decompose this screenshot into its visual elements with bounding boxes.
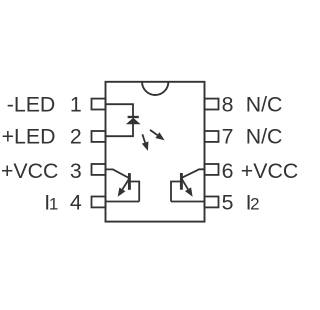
pin 7 <box>205 131 219 142</box>
svg-text:2: 2 <box>70 124 82 148</box>
svg-text:+VCC: +VCC <box>241 159 298 183</box>
light emission arrow (to left detector) <box>142 134 149 151</box>
svg-text:N/C: N/C <box>246 92 283 116</box>
LED D1 cathode bar <box>128 116 139 118</box>
wire pin5 (bottom) <box>171 201 205 203</box>
wire pin4 (bottom) <box>106 201 140 203</box>
phototransistor Q2 base bar <box>180 173 183 190</box>
wire Q2 base to pin5 net <box>171 182 180 202</box>
pin-1 orientation notch <box>142 82 168 95</box>
pin 8 <box>205 99 219 110</box>
pin 2 <box>92 131 106 142</box>
svg-text:I1: I1 <box>44 191 58 215</box>
IC package body U1 (8-pin DIP outline) <box>106 82 205 222</box>
svg-text:6: 6 <box>222 159 234 183</box>
phototransistor Q1 base bar <box>128 173 131 190</box>
LED D1 anode triangle <box>127 118 140 124</box>
svg-text:4: 4 <box>70 191 82 215</box>
pin 5 <box>205 197 219 208</box>
pin 6 <box>205 164 219 175</box>
wire LED anode to pin2 (bottom of loop) <box>106 124 134 136</box>
svg-text:N/C: N/C <box>246 124 283 148</box>
pin 1 <box>92 99 106 110</box>
phototransistor Q1 emitter arrow <box>118 179 130 197</box>
light emission arrow (to right detector) <box>150 130 165 140</box>
wire Q1 base to pin4 net <box>131 182 140 202</box>
svg-text:+LED: +LED <box>2 124 56 148</box>
svg-text:3: 3 <box>70 159 82 183</box>
svg-text:8: 8 <box>222 92 234 116</box>
wire pin1 to LED cathode (top of loop) <box>106 104 134 116</box>
svg-text:-LED: -LED <box>7 92 56 116</box>
svg-text:I2: I2 <box>246 191 260 215</box>
pin 3 <box>92 164 106 175</box>
wire pin6 to Q2 collector <box>182 169 205 177</box>
svg-text:+VCC: +VCC <box>1 159 58 183</box>
svg-text:5: 5 <box>222 191 234 215</box>
pin 4 <box>92 197 106 208</box>
phototransistor Q2 emitter arrow <box>182 179 193 197</box>
svg-text:7: 7 <box>222 124 234 148</box>
wire pin3 to Q1 collector <box>106 169 129 177</box>
svg-text:1: 1 <box>70 92 82 116</box>
